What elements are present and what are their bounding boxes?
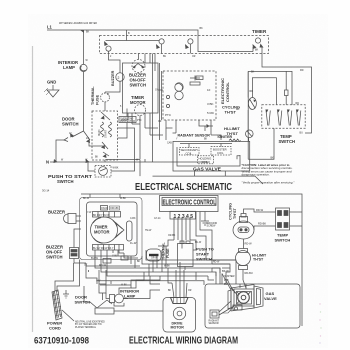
wire fuse feed (104, 92, 106, 111)
svg-text:N: N (46, 160, 49, 165)
svg-text:NEUTRAL LINE IDENTIFIED: NEUTRAL LINE IDENTIFIED (75, 321, 105, 324)
svg-text:BK: BK (251, 71, 255, 74)
svg-text:SWITCH: SWITCH (57, 179, 74, 184)
svg-text:BK: BK (255, 49, 259, 52)
timer contact 1 (106, 46, 111, 51)
svg-text:SENSOR: SENSOR (209, 322, 219, 325)
motor switch contact (101, 112, 110, 120)
svg-text:ELECTRICAL SCHEMATIC: ELECTRICAL SCHEMATIC (135, 182, 232, 193)
svg-text:RD: RD (236, 109, 240, 111)
terminal strip 1 2 3 4 5 (170, 211, 196, 219)
svg-text:TH'ST: TH'ST (233, 208, 237, 219)
wire console right drops (145, 54, 155, 64)
gas valve box (173, 141, 250, 171)
console box (123, 63, 159, 113)
scan artifacts dots (319, 303, 321, 343)
control diode + resistor (190, 76, 200, 81)
wire labels bottom tiny 2 (83, 198, 220, 292)
svg-text:OR-BK: OR-BK (168, 235, 176, 237)
svg-text:CYCLING: CYCLING (229, 203, 233, 220)
gas valve feed wires (222, 274, 238, 297)
svg-text:W-BK: W-BK (113, 168, 119, 170)
motor dashed box (92, 111, 118, 160)
svg-text:OR: OR (188, 290, 192, 292)
wires control to valve (166, 120, 211, 135)
svg-text:L1: L1 (47, 25, 53, 30)
connector under timer (103, 259, 111, 264)
svg-text:SWITCH: SWITCH (196, 257, 212, 262)
svg-text:BK: BK (137, 261, 141, 263)
wires control area verticals (152, 54, 154, 163)
wires cycling to temp (244, 209, 276, 214)
svg-text:1Y: 1Y (69, 133, 72, 135)
right section inner box (252, 78, 276, 105)
wire cycling-hilimit column (247, 71, 249, 141)
wire L1 drop to lamp (83, 30, 85, 65)
svg-text:BK: BK (204, 139, 208, 141)
svg-text:BU GY RD W BK Y: BU GY RD W BK Y (93, 247, 114, 250)
booster coil (211, 147, 231, 156)
svg-text:GND: GND (47, 80, 56, 85)
svg-text:OR-W: OR-W (151, 258, 158, 260)
push to start switch S3b (178, 244, 194, 267)
wire timer feed (126, 30, 128, 41)
secondary coil (180, 148, 200, 156)
svg-text:RD-BK: RD-BK (258, 222, 266, 226)
svg-text:GAS VALVE: GAS VALVE (193, 166, 221, 171)
svg-text:CAB: CAB (167, 142, 172, 145)
motor contacts lower (102, 142, 108, 149)
timer terminal row bottom (93, 245, 124, 251)
wires into drive motor (172, 262, 187, 298)
svg-text:BK: BK (200, 27, 204, 30)
electronic control box EC2 (160, 196, 219, 212)
svg-text:PTC: PTC (137, 120, 142, 122)
timer internal bus wire (106, 40, 160, 42)
svg-text:PTC: PTC (165, 113, 172, 117)
temp switch dashed box (262, 105, 305, 128)
wires bottom web extra (90, 194, 135, 268)
main winding (101, 122, 104, 137)
timer capacitor (127, 221, 133, 241)
relay K2 (175, 91, 183, 99)
wire N rail (50, 161, 210, 163)
ground power area (65, 290, 67, 294)
svg-text:BK: BK (86, 31, 90, 34)
svg-text:MAIN: MAIN (97, 129, 101, 136)
svg-text:2: 2 (118, 76, 120, 80)
svg-text:COIL: COIL (217, 151, 224, 155)
wire buzzer leads (76, 216, 81, 221)
svg-text:63710910-1098: 63710910-1098 (34, 336, 90, 347)
svg-text:"Verify proper operation after: "Verify proper operation after servicing… (242, 181, 296, 185)
svg-text:BU-W: BU-W (195, 242, 202, 244)
ground symbol control (204, 212, 206, 222)
svg-text:TH'ST: TH'ST (227, 131, 239, 136)
relay K1 (175, 83, 183, 91)
electronic control dashed box (163, 71, 216, 120)
hi-limit thermostat TH2b (236, 251, 251, 266)
svg-text:CONTROL: CONTROL (225, 82, 230, 102)
svg-text:TM-W: TM-W (145, 230, 152, 232)
svg-text:COIL: COIL (202, 160, 209, 164)
svg-text:MOTOR: MOTOR (94, 230, 110, 235)
svg-text:RD-W: RD-W (99, 263, 107, 267)
svg-text:SWITCH: SWITCH (275, 238, 291, 243)
svg-text:SWITCH: SWITCH (130, 83, 147, 88)
svg-text:ON-W: ON-W (101, 207, 108, 210)
wire console to bus (138, 54, 140, 60)
svg-text:1F: 1F (207, 88, 211, 92)
start winding (109, 122, 112, 137)
svg-text:BY 2/3 TRACER AND TIN: BY 2/3 TRACER AND TIN (75, 323, 102, 326)
bottom web more horizontals (86, 266, 204, 285)
wire top border (81, 194, 302, 326)
temp switch contacts (265, 110, 301, 126)
svg-text:LAMP: LAMP (63, 65, 75, 70)
svg-text:BK: BK (95, 157, 99, 159)
wire buzzer switch leads (74, 229, 86, 263)
svg-text:SWITCH: SWITCH (279, 139, 296, 144)
wires bottom web (57, 260, 80, 293)
wire L1 rail (47, 30, 253, 52)
wire mid horizontals (105, 128, 163, 176)
right section box (248, 71, 292, 105)
svg-text:2G: 2G (86, 138, 89, 140)
timer switch dashed box (100, 36, 269, 54)
timer terminal row top (93, 212, 121, 218)
radiant sensor RS (199, 120, 213, 126)
svg-text:SWITCH: SWITCH (62, 122, 79, 127)
svg-text:BK OR Y BU W: BK OR Y BU W (93, 214, 110, 217)
radiant sensor legend (210, 310, 219, 318)
svg-text:BK: BK (168, 290, 172, 292)
N rail junction arrows (54, 159, 58, 163)
svg-text:BUZZER: BUZZER (111, 70, 115, 86)
overload protector (119, 117, 136, 123)
svg-text:C-BK: C-BK (130, 218, 136, 220)
svg-text:LAMP: LAMP (124, 294, 136, 299)
wires gas valve internals (180, 143, 232, 145)
svg-text:ELECTRICAL WIRING DIAGRAM: ELECTRICAL WIRING DIAGRAM (129, 336, 238, 347)
svg-text:RD: RD (296, 102, 300, 105)
svg-text:PLATED TERMINAL: PLATED TERMINAL (75, 326, 97, 329)
thermal fuse TF2 (147, 249, 162, 261)
wire center column (149, 54, 151, 64)
timer contact 4 (255, 38, 260, 43)
svg-text:RD-W: RD-W (245, 242, 253, 246)
svg-text:FL-W: FL-W (130, 241, 137, 245)
wire schematic bottom return (153, 171, 256, 176)
drive motor DM (163, 298, 196, 333)
timer motor M1b (91, 217, 118, 243)
svg-text:3G-14: 3G-14 (42, 189, 50, 193)
svg-text:BU: BU (163, 56, 167, 58)
gas valve legend box (205, 284, 300, 328)
svg-text:BUZZER: BUZZER (48, 210, 65, 215)
timer contact 2 (159, 39, 164, 44)
svg-text:W-BK: W-BK (120, 198, 126, 200)
svg-text:3 BK: 3 BK (207, 102, 214, 106)
svg-text:FUSE: FUSE (166, 248, 170, 258)
buzzer component (116, 73, 124, 81)
svg-text:RD-W: RD-W (256, 208, 264, 212)
svg-text:MOTOR: MOTOR (171, 326, 185, 330)
svg-text:OR: OR (192, 56, 196, 58)
svg-text:RD: RD (300, 69, 304, 72)
timer contact 3 (188, 39, 193, 44)
wire labels schematic tiny 2 (61, 56, 240, 170)
wire cycling to hilimit (242, 239, 245, 280)
door switch web (84, 286, 103, 308)
timer assembly box (87, 202, 138, 256)
svg-text:CORD: CORD (49, 326, 61, 331)
svg-text:ELECTRONIC CONTROL: ELECTRONIC CONTROL (163, 200, 217, 207)
svg-text:OR: OR (158, 121, 162, 123)
wire motor right links (118, 128, 135, 159)
svg-text:OFF-BK: OFF-BK (110, 207, 119, 210)
buzzer on-off switch S2 (132, 60, 145, 73)
page edge scan line (32, 46, 34, 332)
svg-text:5 RD: 5 RD (207, 111, 215, 115)
svg-text:MOTOR: MOTOR (130, 100, 146, 105)
svg-text:PROTECTOR: PROTECTOR (120, 120, 135, 123)
wire timer to right section (262, 47, 312, 133)
svg-text:GY-14: GY-14 (154, 218, 161, 220)
svg-text:FUSE: FUSE (96, 94, 100, 105)
svg-text:THERMAL: THERMAL (91, 86, 95, 105)
svg-text:SWITCH: SWITCH (46, 255, 63, 260)
wire timer drops (95, 250, 118, 262)
svg-text:RD-W: RD-W (213, 262, 220, 264)
svg-text:IGNITER: IGNITER (224, 274, 235, 278)
svg-text:START: START (104, 129, 108, 138)
temp switch TS2 (276, 208, 290, 230)
svg-text:SCREW: SCREW (207, 225, 217, 228)
svg-text:RD: RD (250, 90, 254, 93)
svg-text:TH'ST: TH'ST (225, 110, 237, 115)
power cord PC (52, 290, 62, 320)
wire console bottom drops (128, 113, 150, 135)
svg-text:Y-W: Y-W (112, 254, 117, 258)
wires from 12345 down (174, 217, 190, 245)
svg-text:BU: BU (300, 132, 304, 135)
svg-text:TIMER: TIMER (252, 29, 267, 34)
svg-text:COIL: COIL (186, 151, 193, 155)
svg-text:WP SERIES LDG9806 GAS DRYER: WP SERIES LDG9806 GAS DRYER (59, 21, 97, 25)
heater resistor element (285, 90, 289, 96)
svg-text:GY: GY (155, 90, 159, 92)
gas valve assembly (231, 285, 254, 312)
svg-text:RADIANT SENSOR: RADIANT SENSOR (178, 134, 211, 138)
svg-text:BK-W: BK-W (83, 198, 90, 200)
svg-text:TH'ST: TH'ST (253, 258, 264, 262)
wire timer c1 to buzzer (109, 51, 121, 73)
svg-text:VALVE: VALVE (264, 296, 277, 301)
wire door to motor (114, 290, 163, 311)
wire lamp to door switch (83, 72, 85, 131)
svg-text:RD-BU: RD-BU (245, 271, 253, 275)
svg-text:BK: BK (271, 156, 275, 159)
svg-text:W-BK: W-BK (164, 266, 170, 268)
